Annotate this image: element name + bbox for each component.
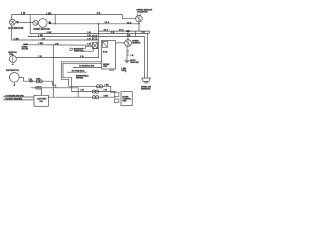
computer box: [121, 92, 132, 106]
alternator output blob: [16, 21, 18, 23]
svg-text:2 W: 2 W: [28, 79, 32, 81]
svg-text:2 BK: 2 BK: [47, 32, 52, 34]
wire cluster vertical: [93, 24, 99, 58]
svg-text:1 R: 1 R: [87, 38, 91, 40]
svg-text:2 B: 2 B: [127, 35, 131, 37]
alternator: [8, 19, 24, 30]
svg-text:1 B: 1 B: [97, 12, 101, 15]
junction dot: [98, 23, 99, 24]
control unit tab: [110, 69, 114, 70]
wire stack 2: [28, 36, 145, 38]
box bottom arrow: [125, 68, 127, 73]
wire drop x135.7: [135, 31, 137, 36]
svg-text:1 R: 1 R: [141, 32, 145, 34]
distributor: [6, 70, 20, 86]
wire bus drop to motor feed: [54, 15, 56, 24]
wire gauge down to ground: [126, 46, 128, 60]
wire distributor run: [19, 77, 56, 87]
battery: [34, 95, 48, 106]
wire lamp drop 2: [144, 37, 146, 78]
junction blob gauge feed: [126, 30, 129, 32]
svg-text:FILTER: FILTER: [22, 48, 29, 50]
ignition coil: [8, 52, 17, 65]
wire start motor to solenoid: [51, 23, 139, 25]
svg-text:TO IGNITION SW: TO IGNITION SW: [79, 66, 94, 68]
wire battery to computer: [48, 96, 116, 98]
svg-text:1 R: 1 R: [42, 38, 46, 40]
svg-text:TO FUSE BOX: TO FUSE BOX: [72, 70, 86, 72]
svg-text:2 BR: 2 BR: [104, 95, 109, 97]
wire tap jog upper: [72, 47, 92, 49]
connector pair lower link: [36, 86, 42, 89]
speed sensor solenoid: [136, 10, 153, 22]
svg-text:1 BK: 1 BK: [38, 43, 43, 45]
svg-text:1 BK: 1 BK: [38, 35, 43, 37]
connector pair row2: [80, 90, 107, 94]
svg-text:10 A: 10 A: [127, 21, 132, 24]
wire box feed upper: [61, 62, 101, 87]
svg-text:2 B: 2 B: [87, 35, 91, 37]
wire stack 1 from top bus: [30, 15, 149, 34]
svg-text:1 BK: 1 BK: [46, 12, 52, 15]
svg-text:DISTRIBUTOR: DISTRIBUTOR: [6, 70, 20, 72]
svg-text:10 A: 10 A: [119, 28, 124, 31]
wire battery positive stub: [41, 88, 43, 96]
wire stack 4 from condenser: [28, 44, 93, 46]
start motor: [33, 19, 50, 31]
wire gauge up to bus: [127, 31, 129, 39]
svg-text:ALTERNATOR: ALTERNATOR: [8, 27, 24, 30]
svg-text:1 B: 1 B: [111, 32, 115, 34]
wire row1: [69, 86, 115, 92]
control unit box: [102, 41, 116, 69]
resistor tap: [70, 48, 85, 53]
svg-text:1 B: 1 B: [80, 56, 84, 58]
svg-text:WIPER): WIPER): [76, 77, 83, 79]
condenser: [22, 43, 29, 50]
connector pair row3: [92, 95, 108, 98]
wire relay bus: [99, 31, 150, 33]
svg-text:4 BK: 4 BK: [36, 78, 41, 81]
svg-text:2 BK: 2 BK: [104, 84, 109, 86]
svg-text:SENSOR: SENSOR: [132, 42, 141, 44]
wire stack 3 from alternator: [12, 25, 99, 40]
svg-text:1 B: 1 B: [38, 56, 42, 58]
svg-text:2 W: 2 W: [80, 90, 84, 92]
svg-text:1 BK: 1 BK: [14, 38, 19, 40]
wire lower link: [31, 88, 78, 97]
wire row2: [72, 91, 117, 93]
svg-text:1 W: 1 W: [21, 12, 26, 15]
wire lamp drop 1: [146, 33, 148, 78]
connector pair row1: [96, 84, 109, 88]
arrow to wiper: [73, 66, 102, 69]
svg-text:2 W: 2 W: [104, 90, 108, 92]
wire top bus: [12, 15, 136, 20]
connector block upper: [92, 35, 96, 40]
connector pair small: [28, 79, 32, 82]
cable ticks: [127, 50, 129, 52]
computer terminals: [114, 92, 119, 96]
battery cable 1: [3, 96, 34, 97]
junction dot solenoid stem: [138, 23, 139, 24]
svg-text:IDLE: IDLE: [103, 51, 108, 53]
svg-text:(SENSOR): (SENSOR): [141, 88, 151, 90]
svg-text:SOLENOID: SOLENOID: [137, 12, 148, 14]
svg-text:16 A: 16 A: [104, 28, 109, 31]
wire solenoid down: [138, 22, 140, 31]
svg-text:16 A: 16 A: [105, 21, 110, 24]
wire alternator to start motor: [18, 21, 33, 23]
wire tap jog lower: [80, 49, 98, 52]
svg-text:START MOTOR: START MOTOR: [33, 28, 50, 31]
connector block lower: [92, 43, 97, 49]
connector pair large: [36, 78, 42, 83]
lamp socket: [141, 78, 151, 90]
arrow to heater: [67, 70, 87, 73]
svg-text:1 B: 1 B: [87, 32, 91, 34]
ground: [125, 60, 140, 64]
wire box to gauge: [116, 42, 125, 44]
wire coil to connector block: [16, 57, 92, 59]
svg-text:GROUND: GROUND: [130, 62, 139, 64]
gauge: [125, 40, 141, 47]
wire box feed lower: [63, 63, 102, 91]
vertical trunk to battery: [52, 45, 54, 97]
battery cable 2: [3, 99, 34, 100]
start motor output blob: [49, 22, 51, 25]
